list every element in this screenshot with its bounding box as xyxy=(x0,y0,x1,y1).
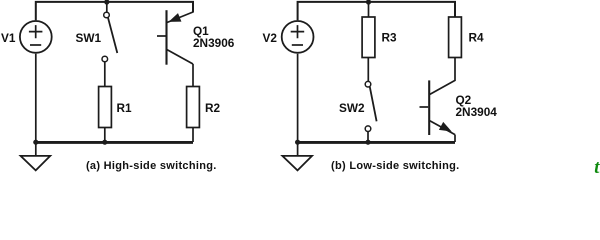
wire R1 bottom xyxy=(104,128,106,143)
resistor R3 xyxy=(362,17,375,58)
node junction V2 / ground xyxy=(295,140,300,145)
svg-text:R3: R3 xyxy=(382,31,398,45)
node junction R1 / rail xyxy=(102,140,107,145)
resistor R2 xyxy=(187,87,200,128)
switch SW2 xyxy=(365,58,376,143)
svg-text:V1: V1 xyxy=(1,31,16,45)
node junction SW2 / rail xyxy=(365,140,370,145)
svg-text:SW1: SW1 xyxy=(76,31,102,45)
svg-text:t: t xyxy=(594,158,600,174)
wire Q2 emitter to rail xyxy=(454,135,456,142)
wire V1 bottom xyxy=(35,54,37,142)
wire R4 bottom to Q2 collector xyxy=(430,58,455,95)
svg-text:V2: V2 xyxy=(263,31,278,45)
wire Q1 collector to R2 xyxy=(192,64,194,87)
svg-text:(a) High-side switching.: (a) High-side switching. xyxy=(86,160,217,172)
wire bottom rail B xyxy=(298,141,455,144)
node junction V1 / ground xyxy=(33,140,38,145)
svg-text:SW2: SW2 xyxy=(339,101,365,115)
svg-text:2N3906: 2N3906 xyxy=(193,36,235,50)
transistor Q1 xyxy=(157,10,193,64)
svg-text:(b) Low-side switching.: (b) Low-side switching. xyxy=(331,160,460,172)
wire top rail A xyxy=(36,2,193,20)
node junction top rail / SW1 xyxy=(104,0,109,5)
ground symbol circuit a xyxy=(21,142,51,170)
svg-text:R1: R1 xyxy=(117,101,133,115)
wire bottom rail A xyxy=(36,141,193,144)
wire top rail B xyxy=(298,2,455,20)
wire R3 top xyxy=(368,2,370,17)
voltage source V1 xyxy=(20,21,52,53)
wire R2 bottom xyxy=(192,128,194,143)
resistor R4 xyxy=(449,17,462,58)
svg-text:R2: R2 xyxy=(205,101,221,115)
transistor Q2 xyxy=(420,80,456,135)
svg-text:2N3904: 2N3904 xyxy=(456,105,498,119)
ground symbol circuit b xyxy=(282,142,312,170)
svg-text:R4: R4 xyxy=(469,31,485,45)
resistor R1 xyxy=(99,87,112,128)
switch SW1 xyxy=(102,2,117,87)
wire V2 bottom xyxy=(297,54,299,142)
node junction top rail / R3 xyxy=(366,0,371,5)
voltage source V2 xyxy=(282,21,314,53)
